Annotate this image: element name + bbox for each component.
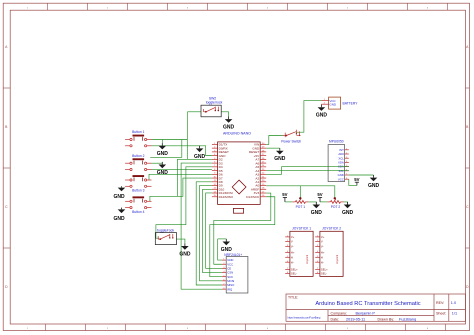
svg-text:5: 5 bbox=[317, 256, 318, 258]
svg-text:5V: 5V bbox=[317, 192, 322, 197]
svg-text:H: H bbox=[291, 255, 293, 259]
svg-text:POT 1: POT 1 bbox=[296, 205, 306, 209]
svg-text:GND: GND bbox=[311, 210, 323, 216]
wire A3 to MPU SDA (over symbol) bbox=[282, 166, 350, 168]
wire POT1 right terminal to ground bbox=[308, 202, 316, 205]
wire D6 to Button3 bbox=[149, 174, 212, 180]
svg-text:1: 1 bbox=[346, 148, 347, 150]
svg-text:8: 8 bbox=[223, 288, 224, 290]
switch SW1 toggle/rock bbox=[155, 229, 176, 245]
wire MPU VCC to 5V flag bbox=[349, 179, 357, 185]
wire MPU GND to ground flag bbox=[349, 174, 374, 176]
wire Power Switch to battery VCC bbox=[297, 101, 322, 133]
wire 5V to POT1 left terminal bbox=[285, 201, 292, 203]
svg-text:3: 3 bbox=[187, 328, 188, 330]
svg-text:6: 6 bbox=[223, 279, 224, 281]
svg-text:GND: GND bbox=[179, 251, 191, 257]
wire D4 to SW1 left pin bbox=[156, 167, 212, 238]
joystick module JS1 bbox=[285, 226, 313, 276]
potentiometer POT 1 bbox=[292, 199, 308, 209]
svg-text:D12/MISO: D12/MISO bbox=[219, 195, 234, 199]
svg-text:4: 4 bbox=[287, 251, 288, 253]
5V power flag at MPU bbox=[354, 177, 359, 186]
svg-text:1: 1 bbox=[287, 236, 288, 238]
wire VIN to Power Switch bbox=[266, 136, 283, 145]
svg-text:8: 8 bbox=[287, 272, 288, 274]
svg-text:1: 1 bbox=[223, 259, 224, 261]
svg-text:1: 1 bbox=[27, 7, 28, 9]
wire SW2 right pin to ground bbox=[221, 112, 228, 117]
wire wire bbox=[152, 162, 163, 164]
svg-text:5: 5 bbox=[223, 275, 224, 277]
title block bbox=[286, 294, 466, 321]
svg-text:GND: GND bbox=[113, 216, 125, 222]
svg-text:toggle/rock: toggle/rock bbox=[206, 100, 223, 104]
wire 5V to POT2 left terminal bbox=[320, 201, 327, 203]
svg-text:2: 2 bbox=[287, 240, 288, 242]
svg-text:D13/SCK: D13/SCK bbox=[246, 195, 260, 199]
svg-text:Button 1: Button 1 bbox=[132, 130, 144, 134]
wire D5 to Button2 bbox=[152, 169, 212, 171]
NRF24L01+ module U2 bbox=[222, 253, 248, 293]
svg-text:Sheet:: Sheet: bbox=[436, 311, 446, 315]
joystick module JS2 bbox=[315, 226, 343, 276]
svg-text:8: 8 bbox=[346, 178, 347, 180]
svg-text:GND: GND bbox=[223, 125, 235, 131]
wire Button1 bottom pin to arduino GND bbox=[152, 146, 212, 156]
svg-text:V+: V+ bbox=[291, 235, 295, 239]
wire D7 to Button4 bbox=[150, 178, 212, 201]
svg-text:GND: GND bbox=[316, 113, 328, 119]
svg-text:3: 3 bbox=[317, 245, 318, 247]
wire NRF ground flag link bbox=[218, 238, 227, 240]
svg-text:GND: GND bbox=[221, 247, 233, 253]
svg-text:JOYSTICK 1: JOYSTICK 1 bbox=[292, 226, 311, 230]
svg-text:TITLE:: TITLE: bbox=[288, 296, 298, 300]
svg-text:REV:: REV: bbox=[436, 301, 444, 305]
svg-text:V: V bbox=[291, 240, 293, 244]
svg-text:1.0: 1.0 bbox=[451, 301, 456, 305]
svg-text:1: 1 bbox=[27, 328, 28, 330]
svg-text:H-: H- bbox=[321, 260, 324, 264]
svg-text:3: 3 bbox=[287, 245, 288, 247]
wire D9 to NRF MOSI bbox=[200, 186, 223, 281]
svg-text:1/1: 1/1 bbox=[452, 311, 457, 315]
svg-text:ARDUINO NANO: ARDUINO NANO bbox=[223, 131, 251, 135]
MPU6050 module U3 bbox=[328, 140, 349, 182]
svg-text:4: 4 bbox=[223, 271, 224, 273]
ground flag at Button2 bbox=[157, 162, 169, 176]
5V power flag at POT1 bbox=[282, 192, 287, 202]
svg-text:JOYSTICK 2: JOYSTICK 2 bbox=[322, 226, 341, 230]
junction POT2 wiper bbox=[334, 197, 336, 199]
svg-text:GND: GND bbox=[368, 183, 380, 189]
wire POT2 right terminal to ground bbox=[344, 202, 348, 205]
svg-text:2: 2 bbox=[346, 153, 347, 155]
svg-text:Button 4: Button 4 bbox=[132, 210, 144, 214]
svg-text:7: 7 bbox=[223, 284, 224, 286]
svg-text:Button 2: Button 2 bbox=[132, 154, 144, 158]
junction POT1 wiper bbox=[299, 197, 301, 199]
svg-text:6: 6 bbox=[427, 7, 428, 9]
svg-text:6: 6 bbox=[287, 261, 288, 263]
svg-text:H-: H- bbox=[291, 260, 294, 264]
wire SW2 drop to D2 net bbox=[186, 112, 188, 159]
wire D13/SCK to NRF SCK bbox=[210, 197, 275, 277]
svg-text:Date:: Date: bbox=[331, 317, 340, 321]
svg-text:3: 3 bbox=[223, 267, 224, 269]
svg-text:GND: GND bbox=[157, 170, 169, 176]
svg-text:MPU6050: MPU6050 bbox=[329, 140, 344, 144]
wire A0 to POT2 wiper bbox=[266, 186, 335, 198]
svg-text:SEL-: SEL- bbox=[321, 272, 327, 276]
svg-text:7: 7 bbox=[317, 268, 318, 270]
svg-text:Arduino Based RC Transmitter S: Arduino Based RC Transmitter Schematic bbox=[315, 301, 420, 307]
ground flag at SW1 bbox=[179, 243, 191, 257]
svg-text:5V: 5V bbox=[354, 177, 359, 182]
svg-text:BATTERY: BATTERY bbox=[343, 101, 359, 105]
ground flag at MPU bbox=[368, 175, 380, 189]
svg-text:4: 4 bbox=[267, 7, 268, 9]
wire link wire near Button2 bbox=[150, 140, 182, 158]
svg-text:H+: H+ bbox=[291, 251, 295, 255]
wire D10 to NRF CSN bbox=[203, 189, 222, 272]
ground flag at Button4 bbox=[113, 208, 125, 223]
svg-text:V-: V- bbox=[291, 245, 294, 249]
wire battery GND to ground flag bbox=[320, 103, 322, 105]
svg-text:H: H bbox=[321, 255, 323, 259]
ground flag at arduino VIN-side GND bbox=[274, 148, 286, 162]
svg-text:IRQ: IRQ bbox=[227, 287, 233, 291]
svg-text:toggle/rock: toggle/rock bbox=[157, 229, 174, 233]
svg-text:2: 2 bbox=[107, 7, 108, 9]
svg-text:4: 4 bbox=[346, 161, 347, 163]
wire D11 to NRF CE bbox=[206, 193, 222, 269]
svg-text:Button 3: Button 3 bbox=[132, 189, 144, 193]
wire D3 to NRF IRQ bbox=[181, 163, 222, 289]
wire branch to POT1 wiper bbox=[299, 186, 301, 198]
svg-text:GND: GND bbox=[113, 194, 125, 200]
svg-text:V+: V+ bbox=[321, 235, 325, 239]
wire arduino GND pin to ground flag bbox=[266, 147, 280, 149]
wire Button1 top pin net bbox=[152, 139, 188, 141]
svg-text:1: 1 bbox=[317, 236, 318, 238]
svg-text:4: 4 bbox=[317, 251, 318, 253]
svg-text:2019-05-11: 2019-05-11 bbox=[346, 317, 365, 321]
ground flag at POT1 bbox=[311, 202, 323, 216]
wire Button2 top pin to ground flag bbox=[161, 140, 163, 144]
svg-text:Joystick: Joystick bbox=[335, 254, 339, 264]
svg-text:5V: 5V bbox=[282, 192, 287, 197]
5V power flag at POT2 bbox=[317, 192, 322, 202]
ground flag near arduino GND pin bbox=[194, 146, 206, 160]
ground flag at Button3 bbox=[113, 186, 125, 200]
svg-text:5: 5 bbox=[287, 256, 288, 258]
push button S1 bbox=[125, 130, 151, 147]
wire D8 to NRF MISO bbox=[196, 182, 222, 285]
svg-text:5: 5 bbox=[347, 328, 348, 330]
svg-text:SEL-: SEL- bbox=[291, 272, 297, 276]
svg-text:3: 3 bbox=[346, 157, 347, 159]
svg-text:8: 8 bbox=[317, 272, 318, 274]
battery B1 bbox=[321, 97, 358, 109]
ground flag at battery bbox=[316, 105, 328, 119]
svg-text:V: V bbox=[321, 240, 323, 244]
svg-text:V-: V- bbox=[321, 245, 324, 249]
switch SW3 Power Switch bbox=[281, 130, 301, 144]
Arduino Nano U1 bbox=[212, 131, 266, 213]
wire D2 branch bbox=[178, 159, 212, 196]
switch SW2 toggle/rock bbox=[201, 97, 223, 117]
svg-text:H+: H+ bbox=[321, 251, 325, 255]
wire SW1 right pin to ground bbox=[177, 239, 185, 243]
svg-text:Company:: Company: bbox=[331, 311, 347, 315]
svg-text:2: 2 bbox=[317, 240, 318, 242]
push button S4 bbox=[125, 196, 151, 213]
svg-text:Benjamin P: Benjamin P bbox=[356, 311, 376, 315]
svg-text:5: 5 bbox=[347, 7, 348, 9]
svg-text:2: 2 bbox=[223, 263, 224, 265]
svg-text:6: 6 bbox=[427, 328, 428, 330]
svg-text:VCC: VCC bbox=[338, 177, 344, 181]
ground flag at Button1 bbox=[157, 143, 169, 157]
svg-text:7: 7 bbox=[346, 174, 347, 176]
svg-text:FuzzBang: FuzzBang bbox=[399, 317, 416, 321]
svg-text:6: 6 bbox=[317, 261, 318, 263]
svg-text:3: 3 bbox=[187, 7, 188, 9]
wire A4 to MPU SCL bbox=[266, 170, 349, 172]
svg-text:7: 7 bbox=[287, 268, 288, 270]
svg-text:GND: GND bbox=[157, 151, 169, 157]
svg-text:Joystick: Joystick bbox=[305, 254, 309, 264]
svg-text:Drawn By:: Drawn By: bbox=[378, 317, 395, 321]
push button S3 bbox=[125, 175, 151, 192]
svg-text:https://easyeda.com/FuzzBang: https://easyeda.com/FuzzBang bbox=[288, 316, 321, 319]
wire A3 to MPU SDA bbox=[266, 167, 281, 175]
wire SW2 left pin wire bbox=[187, 111, 201, 113]
svg-text:POT 2: POT 2 bbox=[331, 205, 341, 209]
svg-text:Power Switch: Power Switch bbox=[281, 139, 301, 143]
wire 3V3 to NRF VCC bbox=[214, 193, 271, 264]
svg-text:2: 2 bbox=[107, 328, 108, 330]
ground flag at NRF24L01 bbox=[221, 239, 233, 253]
svg-text:4: 4 bbox=[267, 328, 268, 330]
push button S2 bbox=[125, 154, 151, 171]
svg-text:GND: GND bbox=[329, 103, 337, 107]
ground flag at POT2 bbox=[342, 202, 354, 216]
potentiometer POT 2 bbox=[327, 199, 343, 209]
svg-text:GND: GND bbox=[342, 210, 354, 216]
svg-text:GND: GND bbox=[194, 154, 206, 160]
wire ground to NRF GND pin bbox=[218, 239, 222, 260]
svg-text:GND: GND bbox=[274, 156, 286, 162]
ground flag at SW2 bbox=[223, 117, 235, 131]
